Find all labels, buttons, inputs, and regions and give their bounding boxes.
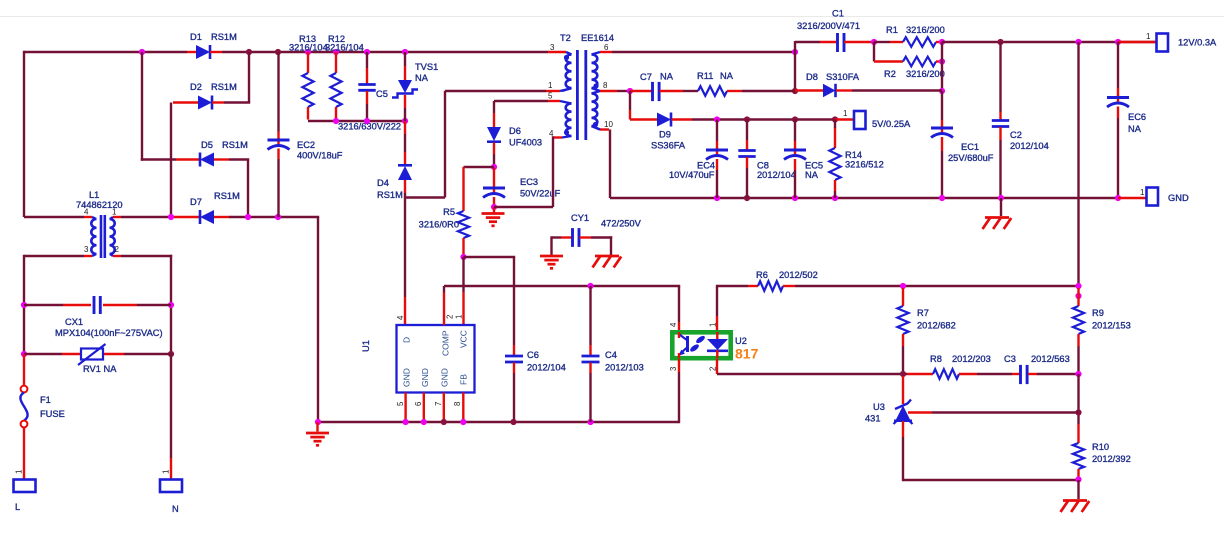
wire R2 left drop	[873, 42, 875, 62]
node pin5	[403, 419, 409, 425]
wire opto to R8 row	[717, 373, 907, 375]
svg-text:C7: C7	[640, 72, 652, 82]
capacitor EC3	[483, 168, 561, 206]
svg-text:D7: D7	[190, 197, 202, 207]
svg-text:3216/200: 3216/200	[906, 25, 945, 35]
wire U1 pin2 lead	[443, 286, 445, 325]
node EC4 top	[714, 116, 720, 122]
node C8 bottom	[744, 195, 750, 201]
svg-text:6: 6	[414, 402, 423, 406]
IC U3 431	[865, 376, 913, 424]
svg-text:D1: D1	[190, 32, 202, 42]
wire snubber bottom bus	[308, 120, 406, 122]
wire TL431 ref row	[908, 411, 1079, 413]
svg-text:N: N	[172, 504, 179, 514]
wire to N	[170, 354, 172, 479]
resistor R13	[289, 34, 328, 120]
capacitor C4	[582, 286, 644, 422]
svg-text:5: 5	[548, 92, 553, 101]
chassis ground feedback	[1061, 480, 1090, 512]
wire D6 top	[493, 101, 495, 113]
node VCC	[460, 254, 466, 260]
resistor R10	[1073, 424, 1131, 479]
resistor R9	[1073, 288, 1131, 374]
svg-text:RS1M: RS1M	[211, 82, 237, 92]
wire T2 pin1 drop	[444, 91, 446, 198]
wire opto pin1 riser	[716, 285, 718, 330]
node EC5 top	[792, 116, 798, 122]
node fb ground	[1075, 476, 1081, 482]
capacitor C2	[992, 42, 1049, 198]
node R14 top	[832, 116, 838, 122]
wire R9-R10 link	[1077, 374, 1079, 424]
svg-text:C1: C1	[832, 9, 844, 19]
wire L1 pin4 row	[24, 216, 92, 218]
svg-text:D8: D8	[806, 72, 818, 82]
svg-text:RV1 NA: RV1 NA	[83, 364, 117, 374]
label C5 value	[338, 122, 401, 132]
svg-text:6: 6	[604, 43, 609, 52]
op-amp U1 controller IC	[396, 315, 475, 406]
svg-text:D4: D4	[377, 178, 389, 188]
svg-text:RS1M: RS1M	[222, 140, 248, 150]
wire primary return vertical	[317, 217, 319, 422]
wire primary ground rail	[318, 421, 679, 423]
node gnd sym	[998, 195, 1004, 201]
wire anode to gnd node	[903, 479, 1079, 481]
svg-text:CY1: CY1	[571, 213, 589, 223]
wire pin8 lead	[462, 393, 464, 423]
svg-text:50V/22uF: 50V/22uF	[520, 189, 561, 199]
node EC2 bottom	[275, 214, 281, 220]
common-mode choke L1 744862120	[76, 190, 123, 258]
node C8 top	[744, 116, 750, 122]
svg-text:1: 1	[709, 323, 718, 327]
capacitor EC1	[931, 91, 994, 198]
wire opto pin4 riser	[678, 286, 680, 331]
svg-text:3216/630V/222: 3216/630V/222	[338, 122, 401, 132]
node EC3 minus	[491, 204, 497, 210]
svg-text:U2: U2	[735, 336, 747, 346]
svg-text:10: 10	[604, 120, 613, 129]
svg-text:FB: FB	[459, 374, 469, 385]
svg-text:RS1M: RS1M	[377, 190, 403, 200]
svg-text:2: 2	[446, 315, 455, 319]
node R2 right	[939, 58, 945, 64]
node TVS1 top	[402, 49, 408, 55]
capacitor C1	[795, 9, 874, 53]
svg-text:4: 4	[84, 208, 89, 217]
svg-text:D6: D6	[509, 126, 521, 136]
node pin8	[460, 419, 466, 425]
svg-text:1: 1	[15, 469, 24, 474]
node EC6 bottom	[1115, 195, 1121, 201]
svg-text:3: 3	[669, 367, 678, 371]
diode D5	[141, 140, 249, 167]
wire pin7 lead	[443, 393, 445, 423]
svg-text:10V/470uF: 10V/470uF	[669, 170, 715, 180]
svg-text:L: L	[15, 502, 20, 512]
wire pin6 lead	[600, 51, 612, 53]
wire pin10 lead	[592, 126, 610, 130]
svg-text:4: 4	[669, 322, 678, 327]
node R12 top	[333, 49, 339, 55]
chassis ground CY1 right	[593, 236, 622, 267]
svg-text:2012/203: 2012/203	[952, 354, 991, 364]
label U2	[735, 336, 747, 346]
wire 12V feedback drop	[1077, 42, 1079, 287]
wire TL431 anode drop	[902, 421, 904, 481]
node TVS-D4	[402, 118, 408, 124]
svg-text:GND: GND	[420, 368, 430, 387]
svg-text:1: 1	[112, 208, 117, 217]
svg-text:R5: R5	[443, 207, 455, 217]
wire pin4 drop	[552, 136, 554, 207]
node D8 out	[939, 88, 945, 94]
wire L1 pin1 to node	[121, 216, 172, 218]
svg-text:3216/0R0: 3216/0R0	[419, 220, 459, 230]
node TL431 ref	[1075, 409, 1081, 415]
resistor R12	[325, 34, 364, 120]
svg-text:EC1: EC1	[961, 142, 979, 152]
node pin6	[421, 419, 427, 425]
svg-text:SS36FA: SS36FA	[651, 141, 686, 151]
node C1-R1R2	[871, 39, 877, 45]
node C5 bottom	[364, 118, 370, 124]
label U1	[361, 340, 371, 352]
diode D8	[795, 72, 942, 97]
svg-text:1: 1	[1146, 32, 1151, 41]
svg-text:UF4003: UF4003	[509, 138, 542, 148]
node R7 top	[900, 283, 906, 289]
resistor R7	[897, 288, 955, 374]
svg-text:D2: D2	[190, 82, 202, 92]
wire T2 pin1 row	[445, 90, 546, 92]
resistor R6	[748, 270, 818, 291]
wire D2 anode riser	[170, 103, 172, 218]
svg-text:C6: C6	[527, 350, 539, 360]
node R14 bottom	[832, 195, 838, 201]
svg-text:R6: R6	[756, 270, 768, 280]
node C6 C4 bottom	[510, 419, 593, 425]
svg-text:1: 1	[455, 315, 464, 319]
wire COMP net	[444, 285, 680, 287]
wire R2-D8 right riser	[941, 42, 943, 91]
wire pin1 lead	[546, 89, 571, 92]
wire secondary ground rail	[610, 197, 1118, 199]
chassis ground secondary	[983, 198, 1012, 229]
ground EC3	[482, 207, 505, 226]
wire drain vertical	[404, 193, 406, 297]
svg-text:GND: GND	[1168, 193, 1189, 203]
wire pin10 drop	[609, 130, 611, 199]
wire L1 pin2 row	[113, 255, 172, 257]
svg-text:R9: R9	[1092, 308, 1104, 318]
optocoupler U2 817	[669, 322, 731, 371]
wire negative bus	[229, 216, 319, 218]
svg-text:5V/0.25A: 5V/0.25A	[872, 119, 911, 129]
TVS diode TVS1	[392, 52, 438, 121]
svg-text:GND: GND	[440, 368, 450, 387]
wire pin3 lead	[548, 51, 566, 53]
resistor R2	[874, 57, 945, 79]
node VCC rect	[491, 164, 497, 170]
capacitor EC4	[669, 120, 728, 199]
svg-text:TVS1: TVS1	[415, 62, 438, 72]
svg-text:EC6: EC6	[1128, 112, 1146, 122]
node D8 in	[792, 88, 798, 94]
svg-text:NA: NA	[805, 170, 819, 180]
wire to R1	[874, 41, 890, 43]
svg-text:EC4: EC4	[697, 161, 715, 171]
wire pin5 lead	[404, 393, 406, 423]
svg-text:C2: C2	[1010, 130, 1022, 140]
ground primary	[306, 422, 329, 445]
svg-text:C5: C5	[376, 89, 388, 99]
node EC5 bottom	[792, 195, 798, 201]
wire drain to T2 pin1	[405, 196, 445, 198]
svg-text:R11: R11	[697, 71, 713, 81]
svg-text:2012/502: 2012/502	[779, 270, 818, 280]
svg-text:GND: GND	[402, 368, 412, 387]
svg-text:8: 8	[603, 81, 608, 90]
capacitor EC6	[1107, 42, 1146, 198]
wire U1 pin4 lead	[404, 297, 406, 325]
connector 12V/0.3A	[1146, 32, 1217, 52]
capacitor C7	[630, 72, 698, 102]
capacitor EC2	[268, 52, 343, 217]
svg-text:EC3: EC3	[520, 177, 538, 187]
diode D2	[173, 82, 250, 110]
node D5 tap	[139, 49, 145, 55]
node RV1 left	[21, 351, 27, 357]
svg-text:D9: D9	[659, 130, 671, 140]
node RV1 right	[168, 351, 174, 357]
svg-text:R1: R1	[886, 25, 898, 35]
diode D9	[630, 113, 717, 151]
svg-text:C3: C3	[1004, 354, 1016, 364]
svg-text:RS1M: RS1M	[211, 32, 237, 42]
wire pin4 to ground node	[494, 206, 553, 208]
wire 5V lead	[835, 118, 854, 120]
svg-text:C8: C8	[757, 161, 769, 171]
connector L	[14, 469, 36, 512]
svg-text:EC5: EC5	[805, 161, 823, 171]
connector N	[160, 469, 182, 514]
node CX1 left	[21, 302, 27, 308]
svg-text:EE1614: EE1614	[581, 33, 614, 43]
capacitor CY1	[552, 213, 642, 247]
node R13 top	[305, 49, 311, 55]
wire secondary top	[612, 51, 795, 53]
wire 12V rail	[942, 41, 1157, 43]
node pin7	[441, 419, 447, 425]
wire L1 pin3 row	[24, 255, 92, 257]
node R9 top	[1075, 283, 1081, 299]
connector GND	[1140, 188, 1189, 206]
wire opto pin3 drop	[678, 359, 680, 424]
resistor R8	[907, 354, 1012, 379]
svg-text:3216/200V/471: 3216/200V/471	[797, 21, 860, 31]
svg-text:12V/0.3A: 12V/0.3A	[1178, 38, 1217, 48]
capacitor C8	[738, 120, 795, 199]
svg-text:2012/104: 2012/104	[527, 363, 566, 373]
wire D9 drop	[629, 91, 631, 120]
svg-text:L1: L1	[89, 190, 99, 200]
svg-text:T2: T2	[560, 33, 571, 43]
node EC6 top	[1115, 39, 1121, 45]
node feedback tap	[1075, 39, 1081, 45]
svg-text:1: 1	[1140, 188, 1145, 197]
svg-text:R7: R7	[917, 308, 929, 318]
svg-text:3216/200: 3216/200	[906, 69, 945, 79]
svg-text:472/250V: 472/250V	[601, 219, 642, 229]
capacitor EC5	[784, 120, 823, 199]
wire left vertical lower	[23, 255, 25, 354]
capacitor C6	[505, 257, 566, 422]
svg-text:1: 1	[548, 81, 553, 90]
svg-text:R14: R14	[845, 150, 862, 160]
svg-text:2: 2	[115, 245, 120, 254]
svg-text:R8: R8	[930, 354, 942, 364]
wire D2 riser	[248, 52, 250, 103]
ground CY1 left	[540, 236, 563, 268]
wire R6 to R9	[795, 285, 1079, 287]
svg-text:400V/18uF: 400V/18uF	[297, 151, 343, 161]
svg-text:VCC: VCC	[459, 330, 469, 348]
svg-text:2012/153: 2012/153	[1092, 321, 1131, 331]
node C4 top	[587, 283, 593, 289]
capacitor CX1	[24, 296, 171, 338]
node C5 top	[364, 49, 370, 55]
wire 12V lead	[1118, 41, 1156, 43]
svg-text:NA: NA	[660, 72, 674, 82]
svg-text:2012/104: 2012/104	[757, 170, 796, 180]
node EC4 bottom	[714, 195, 720, 201]
svg-text:7: 7	[434, 402, 443, 406]
varistor RV1	[24, 344, 171, 374]
node C3 right	[1075, 371, 1081, 377]
svg-text:COMP: COMP	[441, 330, 451, 356]
svg-text:8: 8	[453, 402, 462, 406]
svg-text:25V/680uF: 25V/680uF	[948, 153, 994, 163]
svg-text:3216/512: 3216/512	[845, 160, 884, 170]
wire pin5 row	[494, 100, 548, 102]
node sec top	[792, 49, 798, 55]
svg-text:5: 5	[396, 401, 405, 406]
svg-text:C4: C4	[605, 350, 617, 360]
wire GND lead	[1118, 197, 1146, 199]
svg-text:817: 817	[735, 346, 759, 362]
svg-text:3216/104: 3216/104	[289, 43, 328, 53]
label 817	[735, 346, 759, 362]
fuse F1	[20, 354, 64, 479]
svg-text:CX1: CX1	[65, 317, 83, 327]
wire pin4 lead	[553, 136, 562, 138]
svg-text:U1: U1	[361, 340, 371, 352]
svg-text:431: 431	[865, 414, 881, 424]
svg-text:MPX104(100nF~275VAC): MPX104(100nF~275VAC)	[55, 328, 163, 338]
svg-text:RS1M: RS1M	[214, 191, 240, 201]
node EC1 bottom	[939, 195, 945, 201]
resistor R5	[419, 167, 469, 256]
svg-text:D5: D5	[201, 140, 213, 150]
node D5-D7 join	[245, 214, 251, 220]
svg-text:U3: U3	[873, 402, 885, 412]
wire pin5 lead	[548, 100, 560, 102]
svg-text:2012/392: 2012/392	[1092, 454, 1131, 464]
wire VCC to C6	[464, 256, 516, 258]
svg-text:NA: NA	[415, 73, 429, 83]
wire D5 riser	[141, 52, 143, 161]
resistor R14	[829, 120, 883, 199]
node C2 top	[997, 39, 1003, 45]
diode D6	[487, 113, 542, 166]
wire AC1 top rail left	[24, 51, 187, 53]
resistor R1	[886, 25, 945, 47]
svg-text:F1: F1	[40, 395, 51, 405]
wire AC1 left vertical	[23, 51, 25, 217]
diode D1	[187, 32, 237, 59]
svg-text:2012/682: 2012/682	[917, 321, 956, 331]
wire U1 pin1 lead	[462, 257, 464, 325]
capacitor C3	[1004, 354, 1079, 384]
node R12 bottom	[333, 118, 339, 124]
svg-text:EC2: EC2	[297, 140, 315, 150]
diode D7	[174, 191, 240, 224]
svg-text:NA: NA	[720, 71, 734, 81]
svg-text:R10: R10	[1092, 442, 1109, 452]
node CX1 right	[168, 302, 174, 308]
wire pin6 lead	[423, 393, 425, 423]
wire opto pin2 drop	[716, 359, 718, 375]
svg-text:R2: R2	[884, 69, 896, 79]
svg-text:4: 4	[396, 315, 405, 320]
svg-text:2012/563: 2012/563	[1031, 354, 1070, 364]
wire rectified + bus	[222, 51, 548, 53]
svg-text:FUSE: FUSE	[40, 409, 65, 419]
wire right vertical lower	[170, 255, 172, 354]
resistor R11	[697, 71, 795, 96]
connector 5V/0.25A	[843, 109, 911, 129]
wire EC3 to R5	[464, 166, 495, 168]
svg-text:2012/104: 2012/104	[1010, 141, 1049, 151]
svg-text:2012/103: 2012/103	[605, 363, 644, 373]
svg-text:3216/104: 3216/104	[325, 43, 364, 53]
svg-text:D: D	[402, 337, 412, 343]
node T2 pin8	[627, 88, 633, 94]
svg-text:3: 3	[84, 245, 89, 254]
node R7 bottom	[900, 371, 906, 377]
wire riser C1-D8	[794, 41, 796, 91]
svg-text:S310FA: S310FA	[826, 72, 860, 82]
wire pin8 lead	[600, 90, 630, 92]
svg-text:1: 1	[843, 109, 848, 118]
node gnd rail left	[315, 419, 321, 425]
diode D4	[377, 121, 412, 200]
node R1 right	[939, 39, 945, 45]
wire D5 anode drop	[247, 160, 249, 218]
svg-text:1: 1	[162, 469, 171, 474]
wire L1 pin1 lead	[113, 216, 121, 218]
node EC2 tap	[275, 49, 281, 55]
svg-text:3: 3	[550, 43, 555, 52]
transformer T2 EE1614	[548, 33, 614, 140]
node D2 tap	[246, 49, 252, 55]
capacitor C5	[358, 52, 388, 121]
node AC2	[168, 214, 174, 220]
wire 5V rail	[717, 118, 835, 120]
